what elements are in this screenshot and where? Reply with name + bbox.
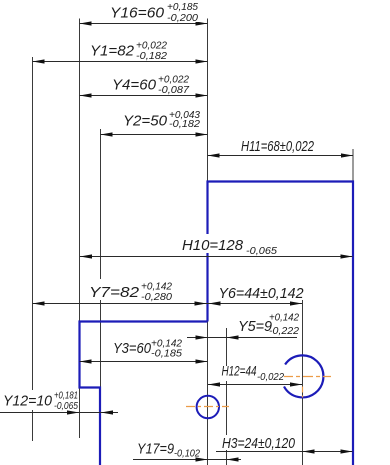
dimension H11 line (208, 153, 354, 157)
dimension H10 label (180, 234, 282, 257)
svg-text:-0,280: -0,280 (141, 292, 172, 303)
svg-text:+0,022: +0,022 (136, 41, 167, 52)
extension line x=32 left datum (32, 57, 34, 441)
svg-text:-0,200: -0,200 (167, 13, 198, 24)
svg-text:-0,022: -0,022 (257, 372, 284, 383)
svg-text:Y6=44±0,142: Y6=44±0,142 (219, 285, 305, 302)
dimension H12 line (208, 382, 302, 386)
dimension Y2 line (101, 132, 208, 136)
svg-text:+0,181: +0,181 (54, 391, 78, 402)
dimension Y3 line (80, 359, 208, 363)
part contour left stepped profile blue (80, 322, 208, 465)
dimension Y17 label (135, 438, 203, 460)
dimension H3 line (216, 449, 353, 453)
svg-text:Y7=82: Y7=82 (89, 284, 140, 301)
svg-text:-0,065: -0,065 (54, 401, 78, 412)
svg-text:Y5=9: Y5=9 (238, 318, 273, 335)
dimension Y5 line (187, 335, 297, 339)
extension line x=353 upper right (352, 149, 354, 181)
svg-text:Y16=60: Y16=60 (110, 5, 165, 22)
extension line x=302.5 through big hole center (302, 299, 304, 465)
small hole circle (197, 396, 219, 418)
svg-text:-0,182: -0,182 (169, 119, 200, 130)
dimension Y1 line (33, 59, 208, 63)
svg-text:-0,182: -0,182 (136, 51, 167, 62)
dimension Y16 line (80, 21, 208, 25)
svg-text:Y1=82: Y1=82 (90, 43, 135, 60)
centerline big hole horizontal orange (283, 376, 331, 378)
svg-text:-0,087: -0,087 (158, 85, 189, 96)
dimension Y1 label (88, 40, 172, 62)
svg-text:Y2=50: Y2=50 (123, 113, 168, 130)
centerline big hole vertical tick orange (302, 387, 304, 398)
dimension Y16 label (108, 2, 202, 24)
extension line x=226.5 (226, 328, 228, 465)
dimension Y3 label (111, 338, 185, 360)
svg-text:+0,022: +0,022 (158, 75, 189, 86)
svg-text:H12=44: H12=44 (222, 363, 257, 379)
dimension Y12 label (1, 390, 78, 412)
dimension H3 label (220, 435, 298, 452)
extension line x=79.5 lower (79, 388, 81, 438)
svg-text:-0,222: -0,222 (269, 326, 299, 337)
dimension Y4 line (80, 93, 208, 97)
dimension Y12 line (0, 410, 118, 414)
svg-text:-0,185: -0,185 (151, 349, 182, 360)
svg-text:Y17=9: Y17=9 (137, 441, 175, 458)
dimension Y2 label (121, 110, 205, 130)
extension line x=100.5 (100, 129, 102, 388)
dimension Y7Y6 line (33, 301, 303, 305)
dimension H12 label (220, 363, 284, 384)
extension line x=207.5 lower through small hole center (207, 322, 209, 465)
dimension Y5 label (236, 310, 300, 337)
dimension Y7 label (87, 279, 175, 303)
dimension H10 line (80, 254, 353, 258)
svg-text:Y3=60: Y3=60 (113, 340, 152, 357)
dimension Y4 label (110, 74, 194, 96)
svg-text:H10=128: H10=128 (182, 237, 244, 254)
svg-text:H11=68±0,022: H11=68±0,022 (241, 138, 314, 155)
svg-text:-0,065: -0,065 (246, 246, 277, 257)
svg-text:Y4=60: Y4=60 (112, 77, 157, 94)
part contour upper rectangle blue (208, 182, 354, 465)
big hole circle arc with gap at left (284, 355, 323, 397)
dimension Y17 line (133, 457, 241, 461)
dimension H11 label (239, 136, 317, 155)
extension line x=207.5 upper datum (207, 19, 209, 182)
svg-text:+0,142: +0,142 (141, 282, 172, 293)
svg-text:H3=24±0,120: H3=24±0,120 (222, 435, 296, 452)
dimension Y6 label (216, 282, 306, 302)
svg-text:+0,185: +0,185 (167, 2, 198, 13)
svg-text:-0,102: -0,102 (174, 449, 200, 460)
extension line x=79.5 upper (79, 19, 81, 322)
svg-text:+0,142: +0,142 (269, 313, 299, 324)
svg-text:Y12=10: Y12=10 (3, 393, 53, 410)
centerline small hole orange (186, 406, 229, 408)
